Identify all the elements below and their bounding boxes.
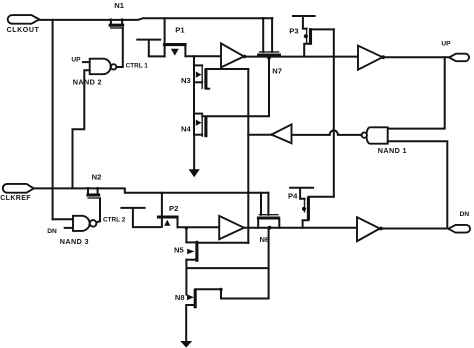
wire P3 drain to long riser [311, 28, 334, 30]
wire CTRL1 from NAND2 to N1 gate [117, 28, 123, 67]
wire P1 drain to buffer1 input [186, 55, 221, 57]
wire N5 to N8 link [185, 260, 187, 295]
svg-text:N3: N3 [181, 76, 191, 85]
power VDD bar of P3 [293, 16, 315, 29]
transistor P1 [163, 18, 187, 56]
wire buffer3 output to UP [383, 56, 449, 58]
svg-text:CLKOUT: CLKOUT [7, 27, 40, 34]
wire N4 drain line to N7 [202, 58, 269, 117]
wire N4 to ground stem [193, 114, 195, 135]
buffer U1 [221, 43, 244, 67]
wire lower feedback box top [187, 267, 269, 269]
transistor P3 [289, 27, 310, 45]
wire NAND2 input B to CLKREF rail [73, 70, 90, 188]
power VDD bar of P1 [137, 40, 164, 57]
wire P1 drain down to N3 gate [193, 56, 195, 65]
wire NAND2 input A stub from UP [83, 61, 90, 63]
transistor N6 [257, 193, 280, 244]
terminal CLKREF [0, 184, 34, 202]
transistor N4 [181, 114, 206, 138]
wire P3 source to rail [304, 44, 310, 57]
svg-text:DN: DN [460, 211, 470, 218]
wire P4 source to lower rail [303, 220, 309, 228]
wire inverter output to feedback rail [248, 134, 271, 136]
transistor N8 [175, 289, 195, 308]
svg-text:CTRL 1: CTRL 1 [126, 62, 149, 69]
wire long vertical rail P3-P4 [333, 29, 335, 196]
svg-text:CTRL 2: CTRL 2 [103, 216, 126, 223]
wire CLKOUT top rail [39, 18, 272, 20]
svg-text:P1: P1 [175, 26, 185, 35]
ground below N4 [189, 135, 200, 178]
wire NAND1 output with hop over rail to inverter [292, 130, 362, 135]
buffer U2 [219, 216, 244, 239]
svg-text:P3: P3 [289, 27, 298, 36]
svg-text:NAND 2: NAND 2 [73, 78, 102, 87]
power VDD bar of P4 [290, 188, 313, 199]
wire N5 gate riser from rail [185, 228, 187, 242]
wire UP to NAND1 input A [388, 57, 445, 128]
svg-text:N8: N8 [175, 293, 185, 302]
transistor N3 [181, 65, 209, 89]
transistor N5 [174, 241, 197, 262]
wire P2 drain to buffer2 input [178, 226, 219, 228]
transistor N7 [257, 18, 282, 76]
svg-text:CLKREF: CLKREF [0, 195, 31, 202]
wire feedback box right vertical [247, 69, 249, 243]
gate NAND2 (inputs UP, CLKREF) [71, 57, 116, 87]
terminal DN [448, 211, 470, 233]
wire P4 drain to long riser [308, 196, 333, 198]
wire DN riser to NAND1 input B [388, 141, 448, 228]
wire N6 drop vertical [268, 228, 270, 299]
svg-text:UP: UP [441, 41, 451, 48]
svg-text:N4: N4 [181, 124, 191, 133]
terminal UP [441, 41, 469, 62]
wire N8 drain hook to lower feedback [221, 289, 269, 298]
svg-text:UP: UP [71, 57, 81, 64]
power VDD bar of P2 [121, 208, 160, 227]
wire CLKOUT to NAND3 input riser [52, 20, 54, 219]
gate NAND3 (inputs DN, CLKOUT) [47, 216, 96, 246]
wire lower rail buffer2 to buffer4 [244, 227, 357, 229]
svg-text:NAND 1: NAND 1 [378, 146, 407, 155]
wire upper output rail buffer1 to buffer3 [245, 56, 358, 58]
wire CTRL2 from NAND3 to N2 gate [96, 198, 100, 222]
svg-text:N6: N6 [260, 235, 270, 244]
terminal CLKOUT [7, 15, 40, 34]
wire N3 drain feedback box top [206, 68, 248, 70]
transistor P4 [288, 192, 308, 221]
wire NAND3 input B stub from DN [65, 227, 73, 229]
transistor P2 [157, 193, 179, 227]
wire N3 to N4 link [193, 65, 195, 113]
gate NAND1 (facing left) [362, 127, 407, 155]
ground below N8 [180, 305, 195, 348]
svg-text:NAND 3: NAND 3 [60, 237, 89, 246]
transistor N1 [109, 1, 125, 28]
svg-text:P2: P2 [169, 204, 178, 213]
buffer U3 [358, 46, 385, 70]
svg-text:N2: N2 [92, 173, 102, 182]
buffer U4 [357, 217, 383, 241]
inverter U5 (facing left) [272, 124, 292, 143]
wire CLKREF rail [34, 188, 269, 192]
transistor N2 [86, 173, 101, 198]
svg-text:DN: DN [47, 228, 57, 235]
svg-text:N5: N5 [174, 246, 184, 255]
wire N8 drain line [195, 288, 221, 290]
svg-text:P4: P4 [288, 192, 298, 201]
wire buffer4 output to DN [381, 228, 450, 230]
svg-text:N1: N1 [114, 1, 124, 10]
svg-text:N7: N7 [272, 67, 282, 76]
wire NAND3 input A from CLKOUT riser [53, 218, 73, 220]
wire N5 drain line to feedback rail [197, 242, 248, 244]
